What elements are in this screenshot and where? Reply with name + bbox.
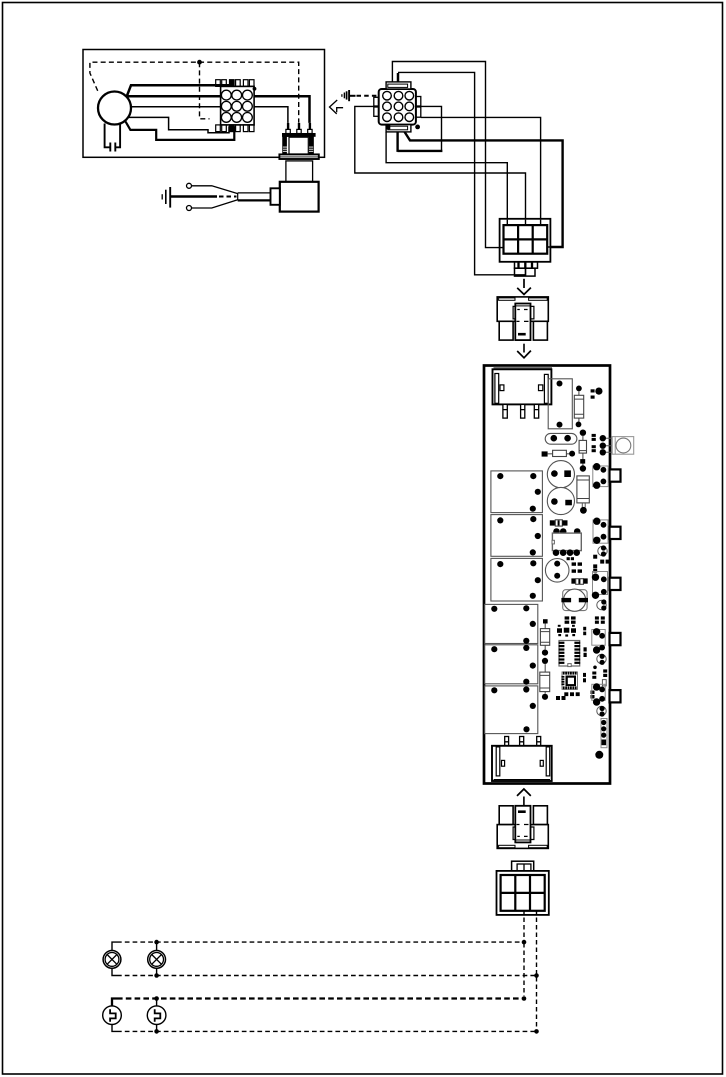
big pad dot bbox=[595, 751, 603, 759]
capacitor C4 big bbox=[563, 590, 587, 611]
coupler bottom blocks bbox=[499, 321, 513, 340]
connector CN-B body bbox=[379, 89, 416, 125]
wire entries into connector bbox=[507, 220, 540, 226]
relay K5 bbox=[485, 645, 538, 684]
enclosure box bbox=[83, 50, 325, 158]
resistor chain R101 bbox=[578, 391, 580, 421]
IC U1 bbox=[553, 528, 560, 535]
wire E left side loop bbox=[355, 106, 526, 224]
relay K1 bbox=[491, 471, 543, 513]
dash-dot wire top bbox=[90, 62, 299, 122]
motor lead right bbox=[115, 124, 120, 152]
IC U3 QFP bbox=[562, 672, 578, 689]
ground wire bbox=[170, 195, 217, 197]
G2: suppressor capacitor assembly bbox=[162, 123, 319, 212]
CN-A pins 3x3 bbox=[221, 90, 252, 122]
lamp L1 bbox=[103, 951, 121, 969]
lamp2 branch wires bbox=[156, 942, 158, 975]
arrow continuation glyph bbox=[330, 100, 338, 114]
wire G thick diagonal bbox=[404, 131, 563, 247]
ground symbol bbox=[161, 194, 163, 199]
wire F row3 right bbox=[421, 117, 541, 224]
capacitor top plate bbox=[283, 134, 316, 137]
device D1 bbox=[103, 1006, 122, 1025]
G10: bottom lamp circuit bbox=[103, 910, 539, 1034]
wire A top-left bbox=[392, 62, 499, 248]
wire through stub bbox=[525, 263, 527, 276]
relay K6 bbox=[485, 686, 538, 734]
arrow down 2 bbox=[523, 344, 525, 353]
PCB connector bottom bbox=[492, 746, 552, 781]
CN-A bottom tabs bbox=[216, 125, 254, 132]
relay K2 bbox=[491, 515, 543, 557]
wire B thick stub bbox=[397, 73, 400, 84]
capacitor prong right bbox=[309, 123, 311, 130]
row1 bottom wire bbox=[112, 968, 117, 975]
resistor R103 bbox=[577, 476, 589, 503]
tube bbox=[238, 193, 271, 201]
dashed wire from CN-D pin to row1 bbox=[523, 910, 525, 941]
CN-B pins 3x3 bbox=[383, 91, 414, 121]
faston tab T3 bbox=[610, 578, 621, 590]
dashed wire to connector bbox=[357, 95, 378, 97]
row1 top wire bbox=[112, 942, 117, 950]
row2 bottom wire bbox=[112, 1025, 117, 1032]
diode D102 bbox=[571, 578, 575, 583]
switch contact top bbox=[187, 183, 192, 188]
coupler top block bbox=[497, 297, 548, 321]
PCB board outline bbox=[484, 366, 610, 784]
CN-B side tabs bbox=[374, 97, 379, 106]
row2 top wire bold bbox=[112, 999, 117, 1006]
faston tab T5 bbox=[610, 690, 621, 702]
fuse F1 bbox=[542, 451, 548, 456]
arrow down 1 bbox=[523, 279, 525, 288]
wire motor row4 bbox=[128, 117, 229, 132]
G3: continuation arrow + noise filter glyph bbox=[330, 90, 378, 114]
CN-B bottom tab bbox=[386, 125, 411, 132]
smd pair bbox=[567, 557, 570, 560]
solenoid body bbox=[280, 182, 319, 212]
PCB connector bottom legs bbox=[505, 737, 541, 746]
CN-A top tabs bbox=[216, 80, 254, 87]
CN-C cells bbox=[504, 225, 548, 254]
smd trio pads bbox=[557, 625, 586, 637]
motor M bbox=[98, 92, 131, 125]
CN-C stub bbox=[515, 262, 538, 268]
wire motor to connector row1 (thick) bbox=[127, 85, 232, 97]
coupler side brackets bbox=[513, 306, 515, 319]
wire C right row2 bbox=[421, 106, 442, 150]
CN-C outer bbox=[500, 219, 551, 262]
coupler tongue bbox=[515, 304, 530, 341]
node dots row2 bbox=[154, 996, 159, 1001]
wire motor row3 to capacitor left prong bbox=[131, 107, 288, 123]
driver clusters at tabs bbox=[592, 463, 608, 717]
coupler2 bottom block bbox=[497, 825, 548, 849]
faston tab T4 bbox=[610, 633, 621, 645]
dashed branch wire bbox=[200, 62, 210, 119]
device2 branch wires bbox=[156, 999, 158, 1032]
capacitor prong mid bbox=[298, 123, 300, 130]
node dot CN-B bottom right bbox=[415, 125, 420, 130]
CN-D top tab bbox=[512, 861, 534, 871]
wire B route bbox=[398, 72, 526, 274]
dot column bottom right bbox=[601, 719, 607, 748]
LED dots bbox=[603, 438, 613, 452]
dashed wire from CN-D pin to row2 bbox=[536, 910, 538, 974]
LED LD1 bbox=[612, 437, 634, 455]
faston tab T1 bbox=[610, 469, 621, 481]
connector block CN-A body bbox=[221, 86, 255, 125]
smd row below U3 bbox=[556, 669, 607, 700]
noise filter bars bbox=[341, 94, 343, 97]
IC U2 SOIC bbox=[559, 641, 580, 667]
wire motor bottom bbox=[126, 122, 235, 140]
smd right of U2 bbox=[584, 647, 587, 651]
capacitor C3 bbox=[545, 559, 569, 583]
diode D101 bbox=[550, 520, 555, 525]
G8: lower coupler half bbox=[497, 789, 548, 848]
resistor column R104 bbox=[543, 619, 548, 623]
CN-D outer bbox=[497, 871, 549, 915]
lamp L2 bbox=[148, 951, 166, 969]
CN-D cells bbox=[501, 875, 545, 911]
PCB connector top legs bbox=[503, 404, 539, 418]
capacitor prong left bbox=[287, 123, 289, 130]
wire D bottom tab bbox=[386, 132, 507, 225]
G4: 9-pin connector and harness wires bbox=[355, 62, 563, 275]
G7: control unit PCB bbox=[484, 366, 634, 784]
smd pair column bbox=[592, 434, 596, 437]
arrow up bbox=[517, 789, 531, 796]
PCB connector top bbox=[493, 369, 552, 404]
switch contact bottom bbox=[187, 206, 192, 211]
coupler2 tongue bbox=[515, 806, 530, 843]
node dots row1 bbox=[154, 940, 159, 945]
wire C thick return bbox=[398, 132, 443, 152]
solenoid neck bbox=[286, 161, 313, 182]
smd cluster right of C3 bbox=[572, 562, 576, 565]
jumper pill J1 bbox=[545, 433, 577, 444]
capacitor C1 bbox=[547, 461, 574, 488]
G5: 6-pin connector bbox=[500, 219, 551, 295]
test point dot bbox=[595, 388, 602, 395]
CN-B top tab bbox=[386, 82, 411, 89]
smd pairs under C4 bbox=[565, 616, 605, 623]
wire motor through connector to capacitor (thick) bbox=[126, 96, 310, 123]
relay K4 bbox=[485, 604, 538, 643]
capacitor body bbox=[283, 136, 313, 154]
faston tab T2 bbox=[610, 527, 621, 539]
capacitor C2 bbox=[547, 487, 574, 514]
coupler2 side brackets bbox=[513, 827, 515, 840]
motor lead left bbox=[105, 124, 111, 152]
relay K3 bbox=[491, 558, 543, 601]
capacitor base plate bbox=[279, 154, 318, 159]
G1: top-left enclosure group bbox=[83, 50, 325, 158]
G6: upper coupler half bbox=[497, 297, 548, 358]
resistor R105 bbox=[540, 672, 550, 692]
G9: 6-pin female connector bbox=[497, 861, 549, 915]
coupler2 top blocks bbox=[499, 806, 513, 825]
node dot CN-A top right bbox=[253, 87, 257, 91]
solenoid left block bbox=[271, 188, 280, 205]
device D2 bbox=[147, 1006, 166, 1025]
relay K0 outline bbox=[548, 379, 572, 429]
smd cluster top right bbox=[593, 555, 609, 573]
resistor chain R102 bbox=[580, 430, 586, 436]
junction node dot bbox=[197, 60, 202, 65]
